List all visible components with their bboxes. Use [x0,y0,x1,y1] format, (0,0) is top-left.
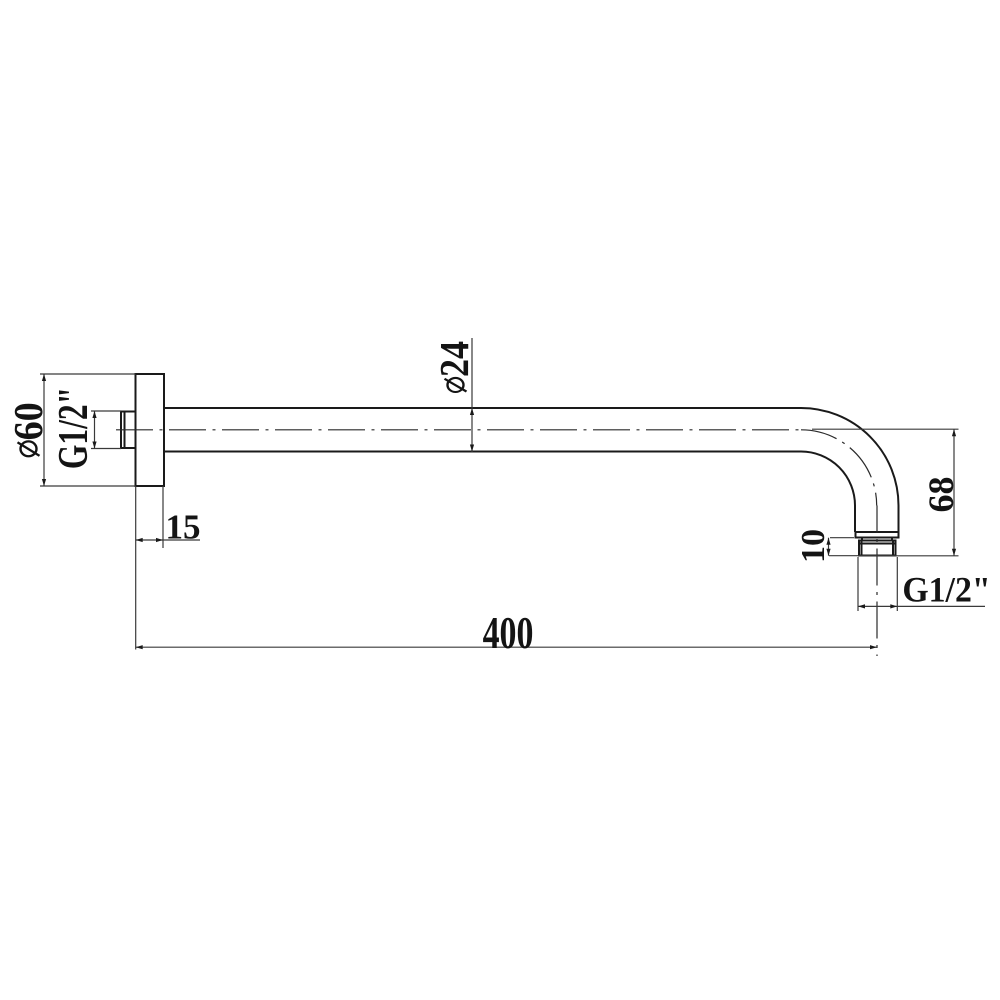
svg-text:G1/2": G1/2" [51,387,97,469]
svg-text:G1/2": G1/2" [902,569,990,609]
svg-text:15: 15 [166,508,201,547]
svg-text:68: 68 [921,477,961,513]
svg-text:60: 60 [6,402,52,440]
svg-text:24: 24 [433,341,478,377]
svg-text:10: 10 [795,529,832,563]
svg-text:400: 400 [483,607,534,658]
